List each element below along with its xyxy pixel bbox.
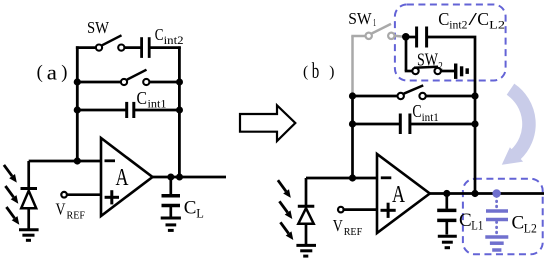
- label Cint2/CL2: [438, 9, 505, 32]
- op-amp plus sign (b): [381, 203, 396, 218]
- op-amp minus sign (a): [105, 159, 116, 162]
- svg-text:C: C: [184, 198, 197, 219]
- op-amp U1 (a): [101, 138, 153, 216]
- junction dot (a) bottom-left: [74, 106, 81, 113]
- label SW1: [348, 9, 376, 29]
- dashed box Cint2/CL2 (top): [395, 5, 506, 81]
- svg-text:L2: L2: [489, 17, 505, 31]
- svg-text:A: A: [392, 182, 405, 208]
- junction dot (a) middle-left: [74, 78, 81, 85]
- wire: Cint1 branch left segment (b): [353, 123, 401, 126]
- junction dot (a) bottom-right: [176, 107, 183, 114]
- capacitor Cint1 (a): [127, 102, 134, 118]
- svg-text:C: C: [412, 101, 421, 121]
- light arrows (a): [4, 165, 19, 225]
- junction dot (a) middle-right: [176, 79, 183, 86]
- dashed box CL2 (bottom): [463, 179, 543, 255]
- node: Cint2 left node (b): [402, 33, 410, 41]
- svg-text:a: a: [47, 60, 58, 84]
- wire: inverting input wire (a): [29, 160, 101, 163]
- switch middle (a): [121, 70, 149, 85]
- ground (b) CL2 (purple): [485, 237, 508, 250]
- ground (b) CL1: [438, 236, 457, 247]
- label Cint2: [155, 25, 184, 47]
- wire: middle branch left segment (b): [353, 95, 398, 98]
- wire: Cint2 right to bus corner (b): [427, 37, 475, 96]
- wire: left feedback bus (a): [76, 46, 79, 161]
- svg-text:V: V: [56, 200, 67, 219]
- capacitor CL1 (b): [437, 194, 456, 235]
- svg-text:C: C: [137, 88, 148, 108]
- svg-text:b: b: [312, 58, 320, 83]
- svg-text:C: C: [477, 9, 489, 29]
- capacitor CL (a): [162, 177, 181, 217]
- svg-text:C: C: [459, 210, 472, 231]
- label (b): [303, 58, 334, 83]
- svg-text:(: (: [37, 63, 43, 83]
- junction dot (b) middle-left: [349, 92, 356, 99]
- wire: top branch left segment (a): [76, 46, 96, 49]
- wire: SW2 to ground (b): [441, 70, 454, 73]
- light arrows (b): [278, 180, 293, 240]
- svg-text:L1: L1: [471, 219, 483, 233]
- wire: right output bus (a): [178, 46, 181, 177]
- junction dot (b) middle-right: [471, 92, 478, 99]
- terminal VREF (a): [61, 192, 67, 198]
- svg-text:): ): [329, 63, 334, 80]
- svg-text:REF: REF: [344, 226, 363, 238]
- svg-text:L2: L2: [524, 221, 537, 235]
- wire: output (a): [153, 176, 227, 179]
- op-amp minus sign (b): [381, 176, 392, 179]
- svg-text:L: L: [196, 207, 204, 221]
- junction dot (b) Cint1 left: [349, 120, 356, 127]
- wire: VREF to plus input (b): [344, 208, 377, 211]
- wire: output (b): [430, 192, 544, 195]
- label CL (a): [184, 198, 204, 221]
- switch SW (a): [96, 35, 125, 50]
- block arrow: [240, 105, 295, 141]
- junction dot (b) output bus: [471, 190, 478, 197]
- capacitor Cint2 (a): [142, 37, 150, 58]
- wire: SW2 branch horizontal (b): [405, 70, 413, 73]
- svg-text:A: A: [116, 165, 129, 191]
- ground (a) CL: [161, 218, 181, 230]
- svg-text:C: C: [438, 9, 449, 29]
- wire: middle branch left segment (a): [77, 81, 121, 84]
- capacitor Cint2/CL2 (b): [417, 27, 427, 48]
- svg-text:(: (: [303, 63, 308, 80]
- wire: left bus (b): [351, 93, 354, 178]
- junction dot (b) Cint1 right: [471, 120, 478, 127]
- ground (a) photodiode: [19, 230, 39, 241]
- photodiode (a): [21, 161, 38, 229]
- label (a): [37, 60, 68, 84]
- capacitor Cint1 (b): [400, 114, 410, 135]
- wire: right bus (b): [474, 95, 477, 194]
- junction dot (b) CL1 tap: [443, 190, 450, 197]
- svg-text:SW: SW: [87, 18, 109, 37]
- label CL2 (b): [512, 213, 537, 236]
- wire: top branch right segment (a): [149, 46, 181, 49]
- svg-text:int2: int2: [449, 17, 467, 31]
- junction dot (a) inverting node: [74, 157, 81, 164]
- svg-text:int1: int1: [148, 97, 167, 111]
- wire: Cint1 branch left segment (a): [77, 109, 126, 112]
- switch SW2: [412, 67, 441, 74]
- ground: SW2 horizontal ground: [456, 64, 468, 79]
- big reuse arrow (lavender): [502, 89, 529, 165]
- junction dot (a) output bus: [176, 174, 183, 181]
- svg-text:/: /: [468, 9, 477, 29]
- svg-text:int1: int1: [422, 110, 439, 124]
- svg-text:SW: SW: [417, 50, 438, 70]
- label Cint1 (a): [137, 88, 167, 111]
- wire: Cint1 branch right segment (a): [133, 109, 179, 112]
- svg-text:SW: SW: [348, 9, 372, 28]
- wire: top branch mid segment (a): [124, 46, 141, 49]
- label VREF (a): [56, 200, 86, 222]
- svg-text:V: V: [333, 216, 344, 235]
- ground (b) photodiode: [296, 245, 316, 256]
- label Cint1 (b): [412, 101, 438, 124]
- switch middle (b): [398, 85, 426, 99]
- svg-text:int2: int2: [164, 33, 184, 47]
- label CL1 (b): [459, 210, 483, 233]
- node: CL2 tap (purple): [492, 189, 500, 197]
- capacitor CL2 (purple, virtual): [486, 196, 508, 234]
- op-amp plus sign (a): [105, 190, 119, 204]
- label VREF (b): [333, 216, 363, 238]
- wire: VREF to plus input (a): [67, 193, 101, 196]
- svg-text:REF: REF: [67, 210, 86, 222]
- wire: Cint1 branch right segment (b): [410, 123, 475, 126]
- svg-text:): ): [61, 63, 67, 83]
- wire: SW2 branch vertical (b): [405, 37, 408, 71]
- svg-text:C: C: [512, 213, 525, 234]
- photodiode (b): [298, 178, 315, 244]
- svg-text:1: 1: [373, 17, 376, 29]
- label SW2: [417, 50, 443, 73]
- wire: node to Cint2 (b): [406, 36, 417, 39]
- wire: inverting input wire (b): [306, 177, 377, 180]
- junction dot (b) inverting node: [349, 174, 356, 181]
- svg-text:C: C: [155, 25, 164, 44]
- junction dot (a) CL tap: [167, 174, 174, 181]
- op-amp U2 (b): [377, 154, 430, 233]
- wire: middle branch right segment (a): [149, 81, 179, 84]
- wire: middle branch right segment (b): [426, 95, 475, 98]
- terminal VREF (b): [338, 207, 344, 213]
- switch SW1 (gray): [351, 24, 403, 94]
